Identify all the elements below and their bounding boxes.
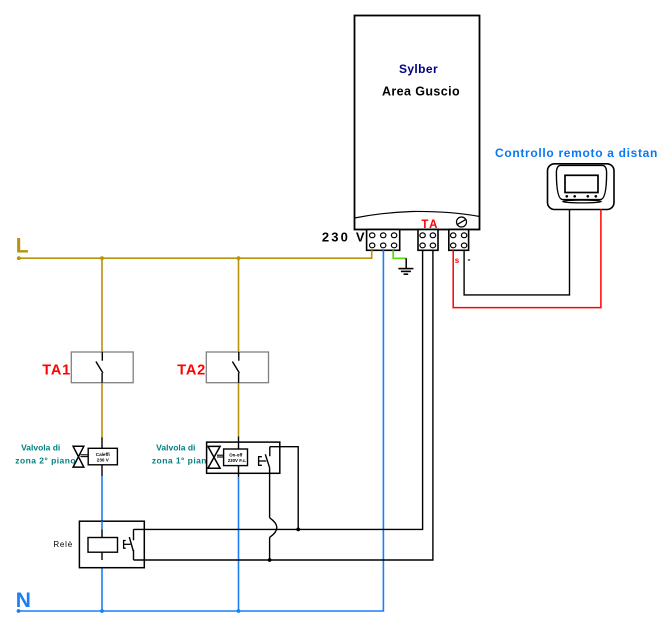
label s: [455, 256, 460, 265]
valve V2 body (zona 2 piano): [73, 446, 117, 467]
wire relay branch (blue through relay): [101, 521, 103, 537]
svg-text:Relè: Relè: [53, 540, 73, 549]
remote control unit: [548, 164, 615, 210]
svg-text:Sylber: Sylber: [399, 62, 438, 76]
label Controllo remoto a distan: [495, 146, 658, 160]
ground: [398, 258, 413, 274]
svg-text:Caleffi: Caleffi: [96, 452, 110, 457]
label Sylber: [399, 62, 438, 76]
svg-text:Area Guscio: Area Guscio: [382, 84, 460, 98]
svg-text:Valvola di: Valvola di: [156, 443, 195, 453]
svg-text:N: N: [16, 589, 31, 612]
wire valve1 to N (blue): [238, 477, 240, 611]
wire through valve 2 (black): [101, 437, 103, 476]
relay coil: [88, 538, 118, 561]
label Rele: [53, 540, 73, 549]
svg-text:On-off: On-off: [229, 452, 243, 457]
label N: [16, 589, 31, 612]
svg-text:TA1: TA1: [42, 363, 71, 379]
valve V1 end-switch: [259, 447, 270, 468]
label minus: [468, 255, 471, 265]
node L-TA2 junction: [237, 256, 241, 260]
thermostat TA2: [206, 352, 268, 383]
label TA2: [177, 363, 206, 379]
wire end-switch bottom with hop: [270, 468, 277, 560]
wire valve2 to N (blue): [101, 476, 103, 611]
node junction end-switch/relay bottom wire: [268, 558, 272, 562]
terminal block remote (2x2): [449, 230, 469, 251]
label L: [16, 235, 29, 258]
thermostat TA1: [71, 352, 133, 383]
wire through valve 1 (black): [238, 436, 240, 477]
boiler outline: [355, 16, 480, 230]
wire TA2 branch upper (olive): [238, 258, 240, 436]
label Valvola di zona 1 piano: [152, 443, 213, 466]
screw symbol on boiler: [457, 217, 467, 227]
wire N rail (neutral, blue) to 230V terminal: [17, 250, 384, 613]
terminal block 230V (3x2): [367, 230, 400, 251]
wire TA1 branch upper (olive): [101, 258, 103, 437]
relay K1 box: [79, 521, 144, 568]
wire end-switch top to junction (black): [270, 447, 298, 530]
wire relay contact to TA terminal 2: [134, 250, 433, 560]
svg-text:230V F.c.: 230V F.c.: [228, 458, 247, 463]
svg-text:s: s: [455, 256, 460, 265]
svg-text:-: -: [468, 255, 471, 265]
relay contact: [124, 529, 134, 560]
wire relay contact to TA terminal 1: [134, 250, 423, 529]
valve V1 body: [208, 446, 248, 468]
label TA (red, on boiler): [421, 219, 439, 231]
svg-text:Controllo remoto a distan: Controllo remoto a distan: [495, 146, 658, 160]
terminal block TA (2x2): [418, 230, 438, 251]
svg-text:L: L: [16, 235, 29, 258]
node N-valve1 junction: [237, 609, 241, 613]
svg-text:zona 2° piano: zona 2° piano: [15, 455, 76, 465]
wire earth (green) from 230V terminal: [393, 250, 406, 258]
wire remote black: [464, 210, 569, 295]
svg-text:230 V: 230 V: [322, 230, 367, 245]
svg-text:zona 1° piano: zona 1° piano: [152, 455, 213, 465]
wire L rail (phase, olive): [17, 250, 372, 260]
wire remote red: [453, 209, 601, 307]
label Area Guscio: [382, 84, 460, 98]
label TA1: [42, 363, 71, 379]
label 230 V: [322, 230, 367, 245]
node N-valve2 junction: [100, 609, 104, 613]
svg-text:TA2: TA2: [177, 363, 206, 379]
node L-TA1 junction: [100, 256, 104, 260]
svg-text:Valvola di: Valvola di: [21, 443, 60, 453]
node junction end-switch/relay wire: [296, 528, 300, 532]
valve V1 outer box (zona 1 piano): [207, 442, 280, 473]
label Valvola di zona 2 piano: [15, 443, 76, 466]
svg-text:230 V: 230 V: [97, 457, 110, 462]
